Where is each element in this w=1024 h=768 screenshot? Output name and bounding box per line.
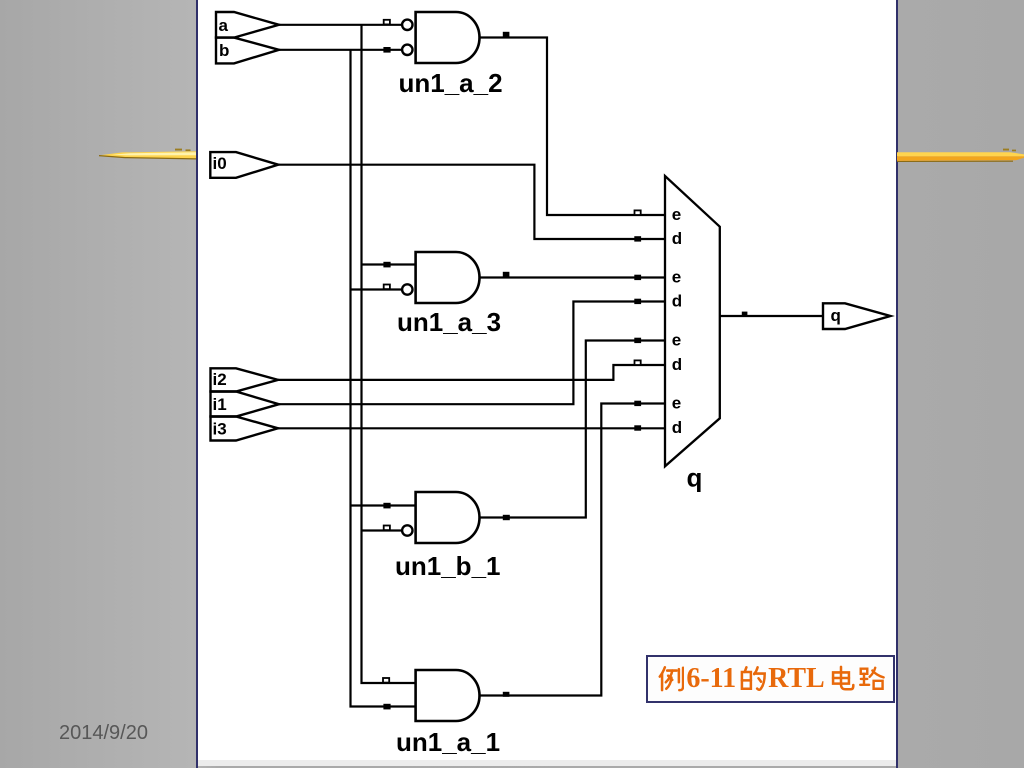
un1_a_3 output square [503, 272, 510, 277]
mux q trapezoid [665, 176, 720, 466]
un1_a_2 pin2 filled square [383, 47, 390, 53]
svg-text:e: e [672, 330, 681, 349]
input tag i1 [211, 392, 280, 417]
and-gate un1_a_1 [416, 670, 480, 721]
right yellow bar [897, 149, 1024, 162]
right navy border line [896, 0, 898, 768]
wire un1_a_3 bottom input from net b [351, 288, 403, 290]
hanzi 的 [738, 664, 766, 693]
and-gate un1_a_2 [416, 12, 480, 63]
and-gate un1_a_3 [416, 252, 480, 303]
wire un1_a_3 output to mux pin e2 [480, 276, 666, 278]
mux pin d1 filled square [634, 236, 641, 241]
output tag q [823, 303, 891, 329]
svg-text:un1_a_2: un1_a_2 [399, 68, 503, 98]
mux pin e4 filled square [634, 401, 641, 406]
un1_a_3 pin2 open square [384, 285, 390, 290]
mux pin d3 open square [635, 360, 641, 365]
wire i2 to mux pin d3 [278, 365, 665, 380]
svg-text:i3: i3 [213, 419, 227, 438]
hanzi 路 [857, 664, 885, 693]
left navy border line [196, 0, 198, 768]
svg-text:d: d [672, 292, 682, 311]
un1_a_1 pin2 filled square [383, 704, 390, 710]
wire a: tag a to un1_a_2 pin1 [279, 24, 402, 26]
un1_a_1 output square [503, 692, 510, 697]
wire net b vertical A down to un1_a_1 bottom input [351, 50, 416, 707]
svg-text:q: q [831, 306, 841, 325]
white schematic panel [198, 0, 896, 760]
wire un1_a_1 output to mux pin e4 [480, 404, 666, 696]
wire mux output to tag q [720, 315, 823, 317]
mux output square [742, 312, 748, 316]
and-gate un1_b_1 [416, 492, 480, 543]
wire b: tag b to un1_a_2 pin2 [279, 49, 402, 51]
un1_b_1 pin1 filled square [383, 503, 390, 509]
input tag i0 [210, 152, 278, 178]
svg-text:i1: i1 [213, 395, 227, 414]
wire i1 to mux pin d2 [279, 302, 665, 405]
hanzi 电 [827, 664, 855, 693]
wire i0 to mux pin d1 [278, 165, 665, 239]
svg-text:un1_a_3: un1_a_3 [397, 307, 501, 337]
mux pin e3 filled square [634, 338, 641, 343]
wire un1_b_1 bottom input from net a [362, 529, 403, 531]
input tag i2 [211, 368, 279, 391]
svg-text:b: b [219, 41, 229, 60]
mux pin e1 open square [635, 210, 641, 215]
svg-text:d: d [672, 355, 682, 374]
un1_b_1 output square [503, 515, 510, 520]
svg-text:d: d [672, 418, 682, 437]
wire un1_a_3 top input from net a [362, 263, 416, 265]
mux pin d2 filled square [634, 299, 641, 304]
svg-text:e: e [672, 267, 681, 286]
input tag b [216, 38, 279, 64]
svg-text:un1_a_1: un1_a_1 [396, 727, 500, 757]
wire i3 to mux pin d4 [278, 427, 665, 429]
svg-text:e: e [672, 205, 681, 224]
un1_b_1 pin2 open square [384, 526, 390, 531]
un1_a_2 pin1 open square [384, 20, 390, 25]
wire un1_b_1 top input from net b [351, 504, 416, 506]
svg-text:i2: i2 [213, 370, 227, 389]
date stamp [59, 723, 148, 743]
hanzi 例 [656, 664, 684, 693]
wire net a vertical B down to un1_a_1 top input [362, 25, 416, 683]
wire un1_b_1 output to mux pin e3 [480, 341, 666, 518]
wire un1_a_2 output to mux pin e1 [480, 38, 666, 216]
svg-text:a: a [219, 16, 229, 35]
mux pin d4 filled square [634, 425, 641, 430]
svg-text:q: q [687, 463, 703, 493]
title box 例6-11的RTL电路 [646, 655, 895, 703]
un1_a_2 output square [503, 32, 510, 37]
svg-text:d: d [672, 229, 682, 248]
left yellow wedge [99, 149, 196, 159]
un1_a_3 pin1 filled square [383, 262, 390, 268]
svg-text:i0: i0 [213, 154, 227, 173]
un1_a_1 pin1 open square [383, 678, 389, 683]
svg-text:un1_b_1: un1_b_1 [395, 551, 501, 581]
input tag i3 [211, 417, 279, 441]
mux pin e2 filled square [634, 275, 641, 280]
svg-text:e: e [672, 393, 681, 412]
input tag a [216, 12, 279, 38]
